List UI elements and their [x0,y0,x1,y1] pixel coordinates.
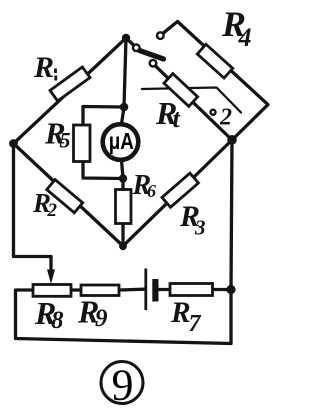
svg-text:6: 6 [147,181,156,201]
svg-text:4: 4 [238,23,252,52]
svg-text:2: 2 [219,105,232,131]
svg-text:R: R [33,51,54,84]
svg-text:μA: μA [109,129,134,154]
svg-text:9: 9 [112,361,134,410]
svg-text:5: 5 [60,128,71,153]
svg-text:9: 9 [95,305,108,332]
svg-text:8: 8 [51,307,64,334]
svg-text:3: 3 [194,216,206,240]
svg-text:7: 7 [189,311,202,337]
svg-text:t: t [173,104,181,133]
svg-text:2: 2 [47,200,58,221]
